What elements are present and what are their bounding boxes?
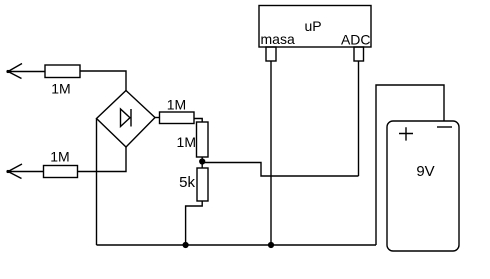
svg-text:1M: 1M [50,149,69,165]
svg-text:1M: 1M [177,134,196,150]
svg-text:1M: 1M [167,97,186,113]
svg-text:masa: masa [261,31,295,47]
svg-text:9V: 9V [416,163,434,180]
svg-text:uP: uP [304,18,321,34]
svg-text:1M: 1M [51,81,70,97]
svg-text:ADC: ADC [341,32,371,48]
svg-text:5k: 5k [179,174,195,191]
